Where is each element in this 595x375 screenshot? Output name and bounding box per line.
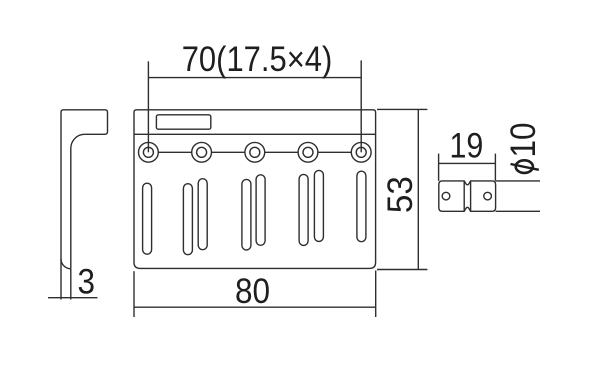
screw S4 outer circle [298, 142, 318, 162]
string slot 3 [198, 179, 207, 250]
svg-text:70(17.5×4): 70(17.5×4) [182, 40, 333, 79]
plate top strip separator line [134, 133, 376, 135]
main plate outline [134, 110, 376, 269]
svg-text:53: 53 [381, 176, 420, 213]
screw S5 outer circle [351, 142, 371, 162]
screw S3 inner circle [250, 147, 260, 157]
side view bottom bend arc [61, 259, 71, 269]
saddle groove left line [463, 181, 465, 211]
saddle part outline [439, 181, 496, 211]
extension line left for dim 80 [133, 271, 135, 317]
extension line right for dim 19 [494, 154, 496, 181]
screw S3 outer circle [245, 142, 265, 162]
extension line bottom for dim 53 [377, 269, 427, 271]
extension line top for dim phi10 [496, 180, 540, 182]
saddle hole right [484, 192, 492, 200]
screw axis line segment 3 [265, 151, 298, 153]
svg-text:80: 80 [235, 273, 270, 312]
extension line right for dim 70 [360, 60, 362, 152]
extension line left for dim 3 [60, 259, 62, 300]
string slot 5 [256, 175, 265, 246]
screw axis line segment 4 [318, 151, 351, 153]
dimension line for 19 [439, 162, 496, 164]
extension line left for dim 70 [147, 61, 149, 152]
side view outline [61, 110, 108, 269]
screw S1 inner circle [143, 147, 153, 157]
string slot 4 [242, 179, 251, 250]
dimension line for 70 [148, 77, 361, 79]
dimension line for 80 [134, 306, 376, 308]
string slot 1 [143, 183, 152, 254]
extension line right for dim 3 [70, 269, 72, 300]
label rectangle [156, 115, 210, 129]
screw S5 inner circle [356, 147, 366, 157]
string slot 6 [299, 174, 308, 245]
string slot 7 [314, 170, 323, 241]
svg-text:19: 19 [449, 125, 483, 164]
dimension line for 53 [417, 109, 419, 269]
screw axis line segment 1 [158, 151, 191, 153]
phi symbol of phi10 (ellipse) [516, 160, 533, 173]
screw S2 inner circle [197, 147, 207, 157]
screw S1 outer circle [139, 142, 159, 162]
saddle groove right line [470, 181, 472, 211]
extension line top for dim 53 [377, 108, 427, 110]
dimension line for 3 [48, 297, 98, 299]
svg-text:10: 10 [504, 122, 543, 157]
screw axis line segment 2 [212, 151, 245, 153]
screw S2 outer circle [192, 142, 212, 162]
string slot 8 [357, 171, 366, 242]
extension line bottom for dim phi10 [496, 210, 540, 212]
svg-text:3: 3 [77, 263, 95, 302]
extension line left for dim 19 [438, 154, 440, 181]
screw S4 inner circle [303, 147, 313, 157]
phi symbol slash [511, 164, 539, 170]
string slot 2 [183, 184, 192, 255]
saddle hole left [442, 192, 450, 200]
extension line right for dim 80 [375, 271, 377, 318]
